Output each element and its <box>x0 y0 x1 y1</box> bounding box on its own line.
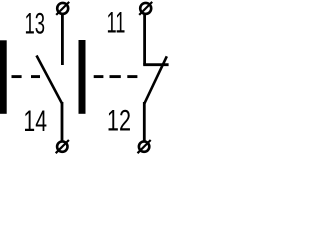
label 11 <box>107 7 126 40</box>
terminal 13 (circle with slash) <box>56 2 69 15</box>
label 12 <box>107 103 131 137</box>
wire from terminal 13 down <box>61 14 64 66</box>
svg-text:11: 11 <box>107 7 126 40</box>
NC contact blade (11-12) <box>144 56 166 103</box>
actuator bar middle (plunger) <box>79 40 86 114</box>
wire from terminal 11 down <box>143 14 146 65</box>
terminal 14 (circle with slash) <box>56 140 69 153</box>
label 13 <box>25 7 46 41</box>
NO contact blade (13-14) <box>37 56 63 104</box>
wire to terminal 12 <box>143 102 146 142</box>
label 14 <box>23 103 47 138</box>
svg-text:14: 14 <box>23 103 47 138</box>
wire to terminal 14 <box>61 102 64 142</box>
dashed actuator link left <box>12 75 41 78</box>
svg-text:12: 12 <box>107 103 131 137</box>
terminal 12 (circle with slash) <box>138 140 151 153</box>
actuator bar left (plunger) <box>0 40 7 114</box>
NC contact seat (11) <box>143 63 168 66</box>
svg-text:13: 13 <box>25 7 46 41</box>
terminal 11 (circle with slash) <box>139 2 152 15</box>
dashed actuator link right <box>94 75 138 78</box>
